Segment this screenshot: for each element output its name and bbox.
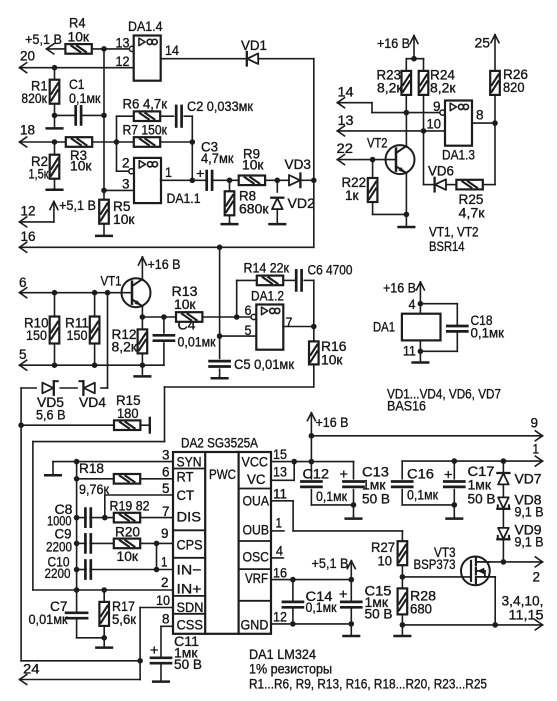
- capacitor C5: [210, 361, 230, 366]
- ground at SYN: [45, 462, 61, 476]
- svg-text:12: 12: [116, 54, 130, 70]
- wire DA1.3 output pin8: [472, 122, 495, 124]
- ground below R8: [222, 223, 238, 224]
- capacitor C7: [66, 613, 87, 618]
- junction R27/R28/gate: [400, 574, 406, 580]
- svg-text:10: 10: [427, 117, 442, 133]
- svg-text:R6 4,7к: R6 4,7к: [123, 97, 168, 113]
- wire DA1 pin11 down: [419, 340, 421, 351]
- svg-text:R1...R6, R9, R13, R16, R18...R: R1...R6, R9, R13, R16, R18...R20, R23...…: [249, 677, 487, 693]
- wire VT1 emitter down: [141, 306, 143, 317]
- wire R17 stems: [103, 590, 105, 638]
- wire VD5/VD4 clamp line: [21, 293, 107, 388]
- wire R11 stems: [94, 293, 96, 366]
- resistor R11: [90, 317, 100, 344]
- zener diode VD8: [497, 497, 509, 508]
- junction SDN/left-bus: [137, 658, 143, 664]
- svg-text:6: 6: [245, 303, 252, 319]
- wire right bus down to line 16: [313, 59, 315, 248]
- junction R1/C1: [52, 113, 58, 119]
- svg-text:BSR14: BSR14: [429, 239, 465, 255]
- wire C13 stems: [353, 462, 355, 517]
- ground below VD2: [270, 209, 286, 224]
- svg-text:0,01мк: 0,01мк: [29, 612, 69, 628]
- wire line 25 arrow up to R26: [491, 35, 499, 71]
- ground below C5: [212, 376, 228, 378]
- wire GND pin12 line: [271, 623, 351, 625]
- junction R22/base: [370, 157, 376, 163]
- wire R15 end terminal bar: [140, 418, 149, 433]
- svg-text:820: 820: [503, 80, 525, 96]
- capacitor C3: [207, 171, 212, 190]
- svg-text:14: 14: [165, 43, 179, 59]
- MOSFET transistor VT3: [461, 557, 495, 586]
- svg-text:13: 13: [338, 113, 354, 129]
- resistor R9: [239, 176, 265, 186]
- junction feedback/pin6: [234, 314, 240, 320]
- svg-text:DA1.1: DA1.1: [167, 191, 201, 207]
- wire line 9: [311, 431, 542, 441]
- junction C1/bus: [101, 113, 107, 119]
- junction R28 bottom: [400, 622, 406, 628]
- svg-text:150: 150: [26, 328, 47, 344]
- zener diode VD4: [83, 381, 94, 395]
- svg-text:11,15: 11,15: [509, 608, 544, 624]
- ground below R5: [96, 224, 112, 236]
- capacitor C8: [85, 509, 90, 527]
- op-amp DA1.3: [445, 101, 472, 146]
- svg-text:1: 1: [533, 441, 540, 457]
- wire IN+ pin2: [33, 589, 173, 591]
- wire zener chain stems: [502, 461, 504, 562]
- junction bus/pin3: [101, 188, 107, 194]
- svg-text:4: 4: [409, 297, 416, 313]
- svg-text:10к: 10к: [70, 158, 92, 174]
- svg-text:BAS16: BAS16: [387, 399, 426, 415]
- wire DA1.4 output pin14: [161, 58, 246, 60]
- wire VD1 to right bus: [258, 58, 314, 60]
- svg-text:C6 4700: C6 4700: [308, 263, 353, 279]
- svg-text:16: 16: [21, 229, 36, 245]
- wire R25 to pin8 node: [483, 184, 495, 186]
- svg-text:2200: 2200: [46, 540, 72, 556]
- svg-text:10: 10: [378, 553, 393, 569]
- junction R4/bus: [101, 46, 107, 52]
- svg-text:2: 2: [161, 575, 169, 591]
- wire R26 bottom to VD6 line: [494, 95, 496, 185]
- svg-text:CSS: CSS: [177, 618, 204, 634]
- wire line 16: [20, 242, 314, 252]
- ground below R28: [395, 625, 411, 636]
- svg-text:50 В: 50 В: [362, 492, 390, 508]
- resistor R12: [138, 329, 148, 353]
- wire DA1.1 output: [161, 179, 206, 181]
- capacitor C18: [447, 326, 467, 331]
- inverting input circle pin2: [129, 169, 134, 174]
- capacitor C11: [151, 658, 171, 663]
- junction pin1/cap-bus: [74, 567, 80, 573]
- wire left bus to SDN: [21, 660, 140, 662]
- junction line18/R2: [52, 139, 58, 145]
- IC DA2 SG3525A outline: [173, 452, 271, 634]
- junction C5-bus/pin5: [217, 333, 223, 339]
- junction pin9/IN- link: [154, 541, 160, 547]
- pin function labels DA2: [177, 454, 270, 633]
- resistor R17: [99, 602, 109, 626]
- junction link/IN-: [154, 567, 160, 573]
- junction VD2 top: [275, 178, 281, 184]
- wire line 20 / DA1.4 pin12: [20, 63, 134, 73]
- wire R12 stems: [141, 317, 143, 365]
- IC power block DA1: [402, 314, 441, 341]
- junctions on line 5: [52, 362, 146, 368]
- svg-text:4,7мк: 4,7мк: [201, 151, 234, 167]
- resistor R15: [114, 420, 140, 430]
- svg-text:BSP373: BSP373: [414, 557, 456, 573]
- wire R6 loop left vertical: [117, 116, 134, 171]
- svg-text:VD3: VD3: [285, 157, 312, 173]
- svg-text:1% резисторы: 1% резисторы: [249, 662, 332, 678]
- wire VT2 collector up: [405, 113, 407, 146]
- svg-text:SDN: SDN: [177, 600, 204, 616]
- wire VRF pin16 line: [271, 579, 351, 581]
- svg-text:1к: 1к: [345, 188, 359, 204]
- wire C5 bus: [219, 247, 221, 376]
- wire C14 stems: [292, 580, 294, 624]
- wire line 22 to VT2 base: [337, 155, 396, 165]
- wire feedback loop R14/C6: [237, 280, 257, 317]
- wire C7 branch: [77, 590, 105, 638]
- wire RT pin6 via R18: [77, 478, 173, 480]
- wire C1 right to bus: [81, 114, 104, 116]
- svg-text:13: 13: [116, 35, 130, 51]
- svg-text:DIS: DIS: [177, 509, 202, 525]
- svg-text:R18: R18: [79, 461, 104, 477]
- ground below VT2: [399, 214, 415, 227]
- wire C3 to R9: [213, 179, 238, 181]
- junction pin3/cap-bus: [74, 459, 80, 465]
- wire line 13 to DA1.3 pin10: [337, 126, 445, 136]
- svg-text:+: +: [150, 642, 159, 658]
- svg-text:R7 150к: R7 150к: [123, 122, 168, 138]
- ground below C17: [447, 516, 463, 518]
- capacitor C9: [85, 534, 90, 552]
- capacitor C10: [85, 561, 90, 579]
- svg-text:4,7к: 4,7к: [459, 205, 486, 221]
- svg-text:DA1.2: DA1.2: [251, 288, 284, 304]
- svg-text:25: 25: [475, 36, 491, 52]
- resistor R22: [368, 178, 378, 202]
- svg-text:2200: 2200: [45, 566, 71, 582]
- svg-text:50 В: 50 В: [174, 657, 202, 673]
- svg-text:1: 1: [165, 165, 172, 181]
- svg-text:680к: 680к: [239, 202, 269, 218]
- resistor R2: [50, 155, 60, 179]
- wire VD6 to R25: [446, 184, 457, 186]
- wire R16 bottom route to DA2 IN+: [33, 364, 314, 590]
- svg-text:VC: VC: [247, 472, 266, 488]
- op-amp DA1.1: [134, 158, 161, 203]
- capacitor C15: [341, 602, 361, 607]
- junction line16/C5 bus: [217, 245, 223, 251]
- svg-text:+5,1 В: +5,1 В: [59, 198, 96, 214]
- svg-text:180: 180: [117, 406, 139, 422]
- junction pin7/R16: [311, 324, 317, 330]
- wire +5.1V arrow bottom: [347, 561, 355, 580]
- svg-text:VD4: VD4: [79, 395, 106, 411]
- svg-text:+16 В: +16 В: [377, 36, 410, 52]
- svg-text:VD2: VD2: [288, 196, 316, 212]
- svg-text:C2 0,033мк: C2 0,033мк: [187, 99, 254, 115]
- wire C6 to pin7 node: [304, 280, 314, 341]
- svg-text:20: 20: [20, 48, 35, 64]
- wire C17 stems: [453, 461, 455, 516]
- wire R14 to C6: [283, 279, 295, 281]
- wire +16V arrow to DA1 pin4: [416, 282, 424, 314]
- svg-text:VT2: VT2: [367, 136, 388, 152]
- svg-text:SYN: SYN: [177, 454, 202, 470]
- wire line 1: [402, 456, 542, 466]
- svg-text:VD6: VD6: [428, 164, 454, 180]
- svg-text:10к: 10к: [242, 158, 264, 174]
- ground below C13: [346, 516, 362, 518]
- svg-text:VT1: VT1: [101, 273, 122, 289]
- svg-text:+16 В: +16 В: [383, 280, 416, 296]
- junction C7/R17 bottom: [101, 635, 107, 641]
- svg-text:DA1: DA1: [373, 320, 395, 336]
- junction R8 top: [227, 178, 233, 184]
- wire R13 line (pin6): [142, 316, 176, 318]
- svg-text:R20: R20: [115, 525, 140, 541]
- resistor R3: [66, 137, 92, 147]
- wire pin5 from C5 bus: [220, 335, 257, 337]
- svg-text:R19 82: R19 82: [110, 499, 150, 515]
- svg-text:CPS: CPS: [177, 537, 203, 553]
- svg-text:50 В: 50 В: [468, 492, 496, 508]
- svg-text:+: +: [444, 467, 453, 483]
- junction C2-bus/output: [190, 178, 196, 184]
- svg-text:2: 2: [533, 570, 541, 586]
- capacitor C4: [154, 335, 174, 340]
- svg-text:VCC: VCC: [242, 454, 269, 470]
- svg-text:1,5к: 1,5к: [29, 166, 50, 182]
- wire line 14 to DA1.3 pin9: [337, 98, 440, 113]
- svg-text:8: 8: [162, 612, 170, 628]
- wire R13 to DA1.2 pin6: [202, 316, 251, 318]
- svg-text:0,1мк: 0,1мк: [407, 488, 439, 504]
- junction pin11/C18: [418, 349, 424, 355]
- wire R23 bottom: [405, 95, 407, 113]
- svg-text:R14 22к: R14 22к: [244, 261, 290, 277]
- inverting input circle pin6: [251, 314, 256, 319]
- svg-text:GND: GND: [241, 617, 269, 633]
- capacitor C12: [301, 482, 321, 487]
- wire R2 stems: [54, 142, 56, 188]
- svg-text:0,1мк: 0,1мк: [471, 325, 505, 341]
- wire VT2 emitter down: [405, 173, 407, 214]
- inverting input circle pin9: [440, 110, 445, 115]
- wire OUB pin1 stub: [271, 530, 284, 532]
- svg-text:C12: C12: [303, 466, 330, 482]
- op-amp DA1.4: [134, 36, 161, 81]
- junction C8/R19: [102, 515, 108, 521]
- svg-text:10к: 10к: [117, 549, 139, 565]
- wire CSS pin8 to C11: [161, 626, 173, 658]
- junction R7/C2 bus: [190, 139, 196, 145]
- resistor R20: [114, 539, 140, 549]
- svg-text:DA1.3: DA1.3: [442, 147, 475, 163]
- wire VCC pin15 line: [271, 461, 354, 463]
- wire C4 stems: [163, 317, 165, 365]
- wire R9 to VD3: [265, 179, 289, 181]
- svg-text:CT: CT: [177, 488, 195, 504]
- svg-text:9,1 В: 9,1 В: [515, 535, 544, 551]
- capacitor C17: [444, 482, 464, 487]
- svg-text:10к: 10к: [321, 352, 343, 368]
- capacitor C14: [283, 602, 303, 607]
- wire VC pin13 riser: [271, 462, 294, 481]
- svg-text:RT: RT: [177, 470, 194, 486]
- svg-text:50 В: 50 В: [365, 607, 393, 623]
- resistor R6: [134, 111, 160, 121]
- wire source bottom line to pins 3,4,10,11,15: [402, 620, 542, 630]
- resistor R24: [419, 71, 429, 95]
- zener diode VD9: [497, 528, 509, 539]
- svg-text:8,2к: 8,2к: [377, 81, 403, 97]
- junction VT3 source/bottom line: [492, 622, 498, 628]
- wire line 5: [20, 360, 164, 370]
- svg-text:PWC: PWC: [209, 467, 236, 483]
- wire C1 left: [55, 114, 76, 116]
- wire line 24: [20, 675, 141, 685]
- junctions on pin15 line: [291, 459, 314, 465]
- wire C18 loop: [420, 304, 457, 352]
- resistor R7: [134, 137, 160, 147]
- wire SYN pin3 to ground: [53, 461, 173, 463]
- svg-text:OUA: OUA: [243, 494, 270, 510]
- junction loop-left/line18: [114, 139, 120, 145]
- wire line 6 to VT1 base: [20, 288, 133, 298]
- wire line 18: [20, 137, 66, 147]
- svg-text:150: 150: [67, 328, 88, 344]
- resistor R10: [50, 317, 60, 344]
- diode VD1: [247, 52, 258, 66]
- junction VT2 emitter/R22: [404, 212, 410, 218]
- diode VD6: [435, 178, 446, 192]
- ground below R12: [135, 365, 151, 376]
- ground below R17: [96, 638, 112, 648]
- wire R1 stems: [54, 68, 56, 116]
- svg-text:14: 14: [338, 85, 354, 101]
- wire C15 stems: [350, 580, 352, 624]
- resistor R23: [402, 71, 412, 95]
- zener hook VD4: [79, 380, 83, 382]
- junctions on line 1: [452, 458, 507, 464]
- resistor R26: [490, 71, 500, 95]
- svg-text:1: 1: [276, 516, 283, 532]
- wire SDN pin10 down to line 24: [140, 608, 173, 680]
- svg-text:7: 7: [286, 315, 293, 331]
- wire R24 bottom: [423, 95, 425, 131]
- zener diode VD5: [42, 381, 53, 395]
- wire R15 line: [21, 424, 115, 426]
- junction +16V tee: [411, 56, 417, 62]
- transistor VT1: [122, 278, 151, 307]
- junction R24/pin10/VD6: [421, 128, 427, 134]
- junction R15 tap: [18, 422, 24, 428]
- resistor R13: [176, 312, 202, 322]
- junctions on GND line: [290, 621, 354, 627]
- junction pin4/C18: [418, 301, 424, 307]
- junction C4 top: [161, 314, 167, 320]
- svg-text:5,6к: 5,6к: [112, 612, 137, 628]
- resistor R25: [456, 180, 482, 190]
- op-amp DA1.2: [256, 305, 283, 350]
- diode VD7: [497, 473, 509, 484]
- ground at GND pin: [344, 624, 360, 636]
- svg-text:8: 8: [476, 108, 484, 124]
- wire R22 stems: [373, 160, 407, 215]
- wire VT1 collector to +16V arrow: [138, 257, 146, 279]
- wire R4 to DA1.4 pin13: [92, 48, 131, 50]
- svg-text:11: 11: [273, 486, 287, 502]
- junction drain/zener chain: [501, 559, 507, 565]
- svg-text:9: 9: [433, 99, 441, 115]
- svg-text:VD7: VD7: [515, 472, 542, 488]
- junction pin9/cap-bus: [74, 541, 80, 547]
- transistor VT2: [386, 145, 415, 174]
- junction +16V/line9: [309, 433, 315, 439]
- diode VD3: [289, 174, 300, 188]
- wire main bus x=104: [103, 49, 105, 199]
- svg-text:OSC: OSC: [243, 550, 270, 566]
- svg-text:0,01мк: 0,01мк: [178, 335, 217, 351]
- junctions on line 6: [52, 290, 111, 296]
- svg-text:0,1мк: 0,1мк: [69, 91, 101, 107]
- resistor R14: [257, 276, 283, 286]
- diode VD2: [271, 198, 283, 209]
- wire +5.1V arrow to R4: [47, 44, 66, 54]
- wire IN- pin1 via C10: [77, 543, 173, 569]
- svg-text:9,1 В: 9,1 В: [515, 505, 544, 521]
- resistor R8: [225, 191, 235, 215]
- svg-text:DA2 SG3525A: DA2 SG3525A: [181, 436, 258, 452]
- resistor R4: [65, 44, 91, 54]
- svg-text:12: 12: [21, 203, 36, 219]
- wire +16V arrow down to R23/R24: [406, 36, 423, 71]
- wire CPS pin9 via C9 R20: [77, 542, 173, 544]
- resistor R1: [50, 80, 60, 104]
- svg-text:DA1 LM324: DA1 LM324: [249, 647, 316, 663]
- capacitor C2: [176, 106, 181, 127]
- svg-text:C16: C16: [407, 466, 434, 482]
- svg-text:10к: 10к: [113, 212, 135, 228]
- wire R8 stems: [229, 180, 231, 222]
- zener hook VD5: [54, 380, 58, 382]
- svg-text:+: +: [340, 466, 349, 482]
- resistor R5: [99, 200, 109, 224]
- wire C16 stems: [402, 461, 454, 505]
- svg-text:OUB: OUB: [243, 523, 270, 539]
- svg-text:+: +: [339, 586, 348, 602]
- wire R28 stems: [401, 566, 403, 625]
- resistor R18: [114, 474, 140, 484]
- junction emitter/R12/R13: [140, 314, 146, 320]
- svg-text:8,2к: 8,2к: [430, 81, 456, 97]
- wire VD6/R25 branch: [424, 131, 434, 185]
- wire R7 to C2 bus: [160, 141, 192, 143]
- wire OUA pin11 route to R27: [271, 501, 402, 540]
